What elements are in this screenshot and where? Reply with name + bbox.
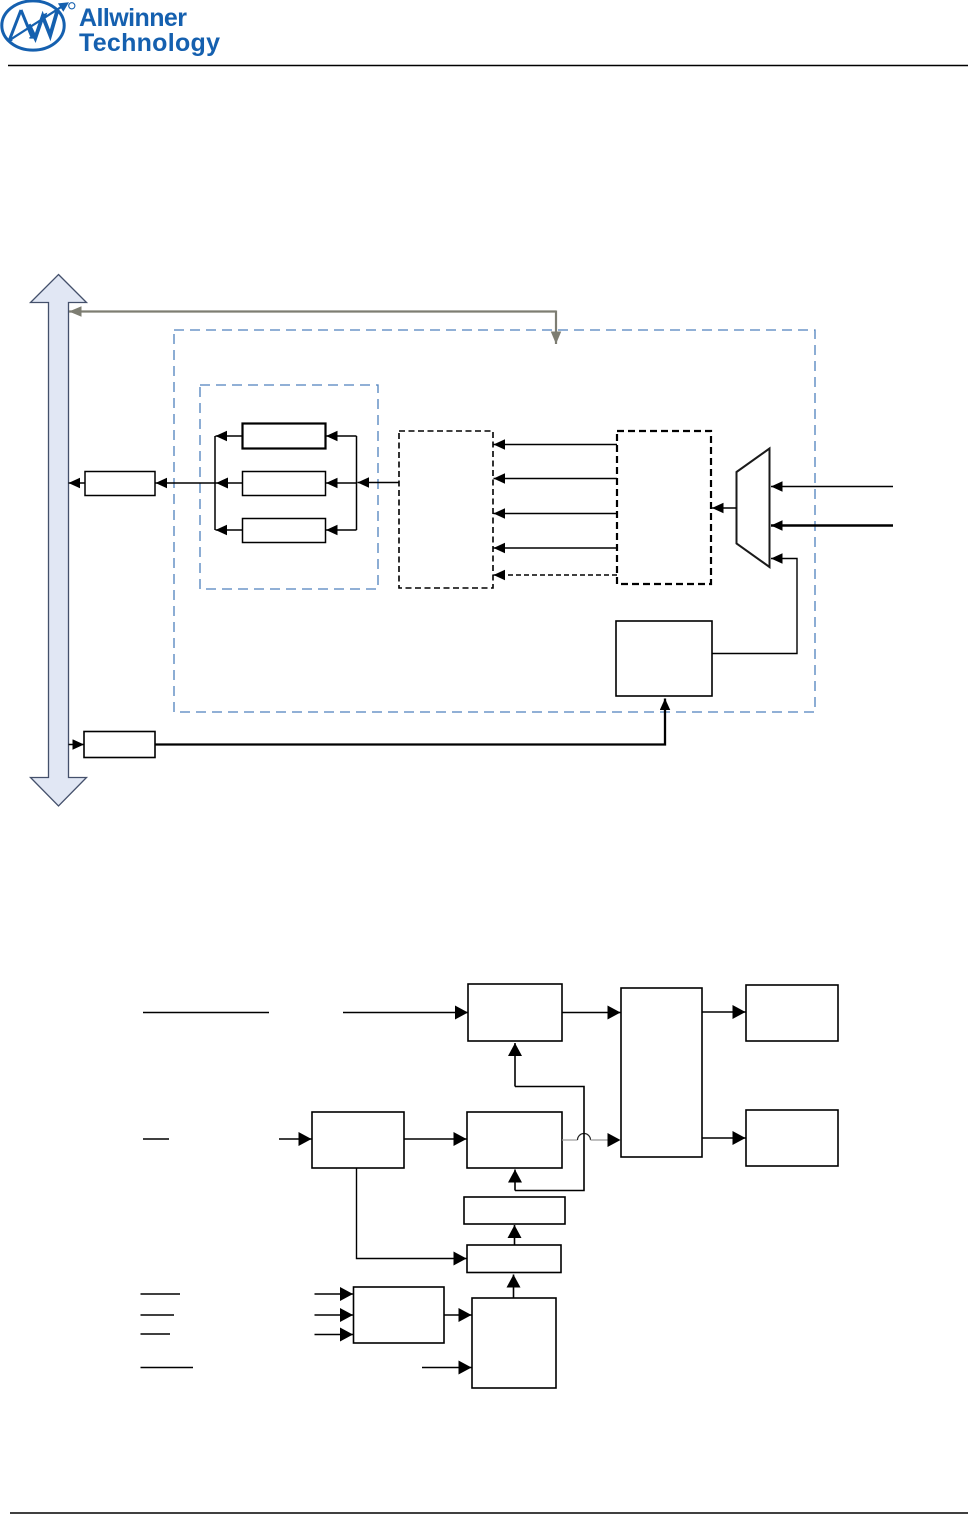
wire R1 left [216, 435, 243, 437]
wire W2 to W1 [514, 1225, 516, 1245]
wire T to BR [702, 1137, 746, 1139]
outer dashed region [174, 330, 815, 712]
wire D1 to cluster [358, 482, 400, 484]
wire D2 to D1 line1 [494, 444, 618, 446]
header rule [8, 65, 968, 67]
wire D2 to D1 line4 [494, 547, 618, 549]
wire R3 left [216, 529, 243, 531]
hop wire C to T gray left [562, 1139, 578, 1141]
wire T to TR [702, 1011, 746, 1013]
mux [737, 449, 770, 568]
box R2 [243, 472, 326, 496]
box BR [746, 1110, 838, 1166]
wire up into A [514, 1043, 516, 1087]
box T [621, 988, 702, 1157]
hop wire gray right [591, 1139, 609, 1141]
wire D2 to D1 line3 [494, 513, 618, 515]
wire into D lower [422, 1367, 472, 1369]
wire A to T [562, 1012, 621, 1014]
wire R1 right [326, 435, 357, 437]
logo emblem [2, 1, 75, 50]
mux input 3 from SB [712, 559, 797, 654]
wire LB1 to bus [69, 482, 86, 484]
wire up into C [514, 1170, 516, 1191]
wire D2 to D1 line2 [494, 478, 618, 480]
box R3 [243, 519, 326, 543]
mux input 2 [771, 524, 893, 527]
input stub b [141, 1314, 175, 1316]
box SB [616, 621, 712, 696]
box TR [746, 985, 838, 1041]
signal stub 2 [143, 1138, 169, 1140]
box W2 [467, 1245, 561, 1273]
input stub c [141, 1333, 171, 1335]
M input arrow 3 [315, 1334, 354, 1336]
box A [468, 984, 562, 1041]
gray feedback wire vertical [555, 311, 557, 345]
hop arrowhead [608, 1133, 621, 1147]
box LB2 [84, 732, 155, 758]
wire bus to LB2 [69, 744, 85, 746]
box B [312, 1112, 404, 1168]
M input arrow 2 [315, 1314, 354, 1316]
input stub d [141, 1367, 194, 1369]
M input arrow 1 [315, 1293, 354, 1295]
dashed box D1 [399, 431, 493, 588]
wire D2 to D1 line5 dashed [494, 574, 618, 576]
input stub a [141, 1293, 181, 1295]
wire M to D [444, 1314, 472, 1316]
box M [354, 1287, 445, 1343]
wire B to C [404, 1138, 467, 1140]
wire mux to D2 [712, 507, 737, 509]
dashed box D2 [617, 431, 711, 584]
wire B down to W2 [357, 1168, 467, 1259]
logo wordmark [79, 4, 220, 57]
box LB1 [85, 472, 155, 496]
box D [472, 1298, 556, 1388]
inner dashed region [200, 385, 378, 589]
gray feedback wire horizontal [69, 310, 556, 312]
wire R2 right [326, 482, 357, 484]
arrowhead at crossing [216, 478, 228, 489]
footer rule [10, 1512, 968, 1514]
wire into box A [343, 1012, 468, 1014]
left connector vertical [214, 436, 216, 530]
box W1 [464, 1197, 565, 1224]
clock S path [515, 1087, 584, 1191]
system bus double arrow [31, 275, 87, 807]
wire into box B [279, 1138, 312, 1140]
right connector vertical [356, 436, 358, 530]
wire R3 right [326, 529, 357, 531]
wire LB2 to SB [155, 699, 665, 745]
signal stub 1 [143, 1012, 269, 1014]
wire D to W2 up [513, 1275, 515, 1299]
box R1 [243, 424, 326, 449]
wire R2 to LB1 [156, 482, 243, 484]
box C [467, 1112, 562, 1168]
svg-text:Technology: Technology [79, 29, 220, 57]
mux input 1 [771, 486, 893, 488]
svg-text:Allwinner: Allwinner [79, 4, 187, 32]
hop arc [578, 1134, 591, 1140]
